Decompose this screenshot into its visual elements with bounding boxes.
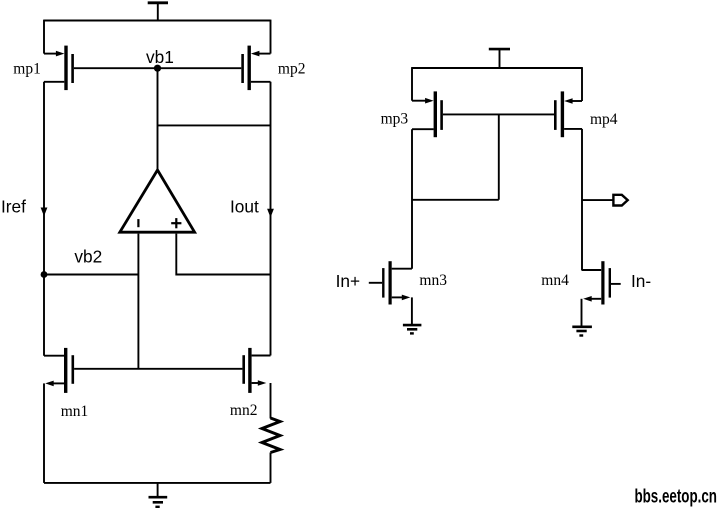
svg-text:mp4: mp4 bbox=[590, 111, 618, 128]
wire: tee from vb1 wire to Iout branch bbox=[158, 124, 271, 126]
output port symbol bbox=[613, 195, 627, 206]
wire: top supply rail (right circuit) bbox=[412, 67, 582, 69]
nmos mn2 bbox=[244, 348, 271, 393]
wire: output stub from mp4 drain branch bbox=[582, 199, 613, 201]
nmos mn3 bbox=[383, 261, 412, 304]
wire: op-amp non-inverting input down and over to Iout branch bbox=[176, 234, 270, 275]
svg-text:In+: In+ bbox=[336, 271, 361, 291]
svg-text:mn2: mn2 bbox=[230, 402, 258, 419]
svg-text:vb1: vb1 bbox=[146, 47, 174, 67]
svg-text:mn3: mn3 bbox=[419, 272, 447, 289]
wire: mp4 drain down to mn4 drain bbox=[581, 129, 583, 270]
wire: mp2 gate to node vb1 bbox=[158, 67, 242, 69]
vdd symbol (right circuit) bbox=[489, 49, 510, 68]
wire: left supply drop to mp1 source bbox=[43, 20, 45, 54]
wire: right supply drop to mp4 source bbox=[581, 67, 583, 101]
wire: mn3 source down to ground bbox=[411, 297, 413, 325]
wire: mp3 drain down to mn3 drain bbox=[411, 129, 413, 269]
resistor R1 bbox=[262, 418, 280, 453]
svg-text:mp2: mp2 bbox=[278, 61, 306, 78]
wire: resistor down to bottom rail bbox=[270, 453, 272, 483]
wire: mn1 source down to bottom rail bbox=[43, 383, 45, 483]
wire: right supply drop to mp2 source bbox=[270, 20, 272, 54]
pmos mp4 bbox=[555, 91, 582, 137]
vdd symbol (left circuit) bbox=[148, 3, 168, 21]
svg-text:Iout: Iout bbox=[230, 197, 259, 217]
pmos mp3 bbox=[412, 91, 442, 137]
svg-text:bbs.eetop.cn: bbs.eetop.cn bbox=[634, 486, 717, 507]
svg-text:mn4: mn4 bbox=[541, 272, 569, 289]
wire: mp1 gate to node vb1 bbox=[74, 67, 158, 69]
svg-text:mn1: mn1 bbox=[61, 403, 89, 420]
node vb1 junction dot bbox=[154, 65, 161, 72]
wire: left supply drop to mp3 source bbox=[411, 67, 413, 101]
wire: top supply rail (left circuit) bbox=[44, 20, 271, 22]
wire: mn4 source down to ground bbox=[581, 299, 583, 327]
svg-text:vb2: vb2 bbox=[74, 246, 102, 266]
wire: gate tie drop from mp3/mp4 gate line bbox=[498, 114, 500, 199]
wire: vb2 line from Iref branch to inverting input wire bbox=[44, 274, 138, 276]
wire: mn2 source down to resistor bbox=[270, 383, 272, 419]
wire: gate line mn1 to mn2 bbox=[74, 368, 242, 370]
pmos mp2 bbox=[243, 46, 271, 91]
pmos mp1 bbox=[44, 46, 73, 91]
wire: gate tie over to mp3 drain branch (diode connection) bbox=[412, 199, 499, 201]
ground symbol (left circuit) bbox=[149, 483, 168, 507]
wire: vb1 down to op-amp output apex bbox=[157, 68, 159, 170]
wire: gate line mp3 to mp4 bbox=[443, 113, 554, 115]
wire: In- lead from mn4 gate bbox=[611, 283, 621, 285]
wire: Iout branch (mp2 drain down to mn2) bbox=[267, 82, 274, 356]
svg-text:mp3: mp3 bbox=[381, 111, 409, 128]
wire: bottom ground rail (left circuit) bbox=[44, 482, 271, 484]
ground symbol (mn3) bbox=[403, 325, 422, 333]
wire: In+ lead to mn3 gate bbox=[369, 282, 382, 284]
svg-text:In-: In- bbox=[631, 271, 651, 291]
junction dot on Iref branch at vb2 bbox=[41, 271, 48, 278]
op-amp U1 bbox=[120, 170, 195, 232]
wire: Iref branch (mp1 drain down the left side) bbox=[41, 82, 48, 356]
ground symbol (mn4) bbox=[572, 327, 592, 336]
wire: op-amp inverting input down to mn1/mn2 gate line bbox=[137, 234, 139, 369]
nmos mn4 bbox=[582, 261, 610, 304]
nmos mn1 bbox=[44, 348, 73, 393]
svg-text:Iref: Iref bbox=[1, 197, 26, 217]
svg-text:mp1: mp1 bbox=[13, 61, 41, 78]
